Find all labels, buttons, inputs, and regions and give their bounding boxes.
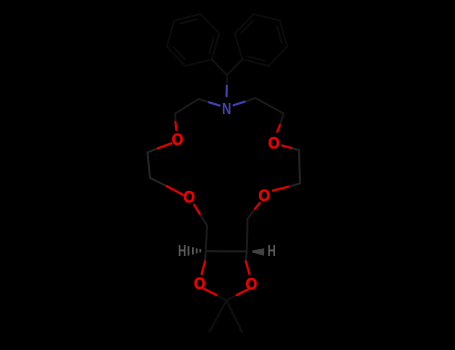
svg-text:N: N	[222, 101, 231, 119]
svg-text:H: H	[178, 241, 186, 259]
svg-text:O: O	[183, 189, 195, 207]
svg-text:O: O	[194, 276, 206, 294]
svg-text:O: O	[172, 131, 184, 149]
svg-text:O: O	[268, 135, 280, 153]
svg-text:H: H	[267, 241, 275, 259]
svg-text:O: O	[259, 188, 271, 206]
svg-text:O: O	[246, 276, 258, 294]
